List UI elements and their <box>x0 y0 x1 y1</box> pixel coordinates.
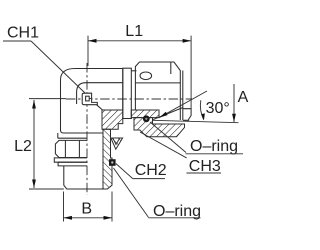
captive seal square <box>109 159 116 166</box>
svg-text:30°: 30° <box>206 100 230 117</box>
retaining ring middle arm <box>89 97 91 99</box>
threaded stud <box>64 166 108 189</box>
elbow body inner hex-face line <box>77 83 123 104</box>
svg-text:CH3: CH3 <box>189 158 221 175</box>
section hatch: body lower wall <box>102 110 123 129</box>
bore cone edge to section <box>97 105 103 110</box>
seat cone line <box>153 108 184 120</box>
nut facet line <box>135 82 180 84</box>
svg-text:L2: L2 <box>14 138 32 155</box>
retaining ring inner notch <box>86 96 90 101</box>
nut ellipse mark <box>140 72 152 80</box>
elbow body bottom edge <box>67 132 104 134</box>
section hatch: nut lower body <box>134 118 185 137</box>
collar flange <box>123 68 132 118</box>
30 degree leader <box>159 91 230 120</box>
retaining ring detail (CH1 target) <box>82 93 97 105</box>
section hatch: band under nut left <box>131 110 159 118</box>
tube segment in gap <box>131 70 136 72</box>
washer 1 <box>54 158 87 162</box>
locknut CH2 external <box>55 140 87 157</box>
nut face second line <box>182 71 184 121</box>
svg-text:B: B <box>81 201 92 218</box>
nut chamfer facet edge <box>170 62 172 74</box>
svg-text:L1: L1 <box>125 23 143 40</box>
washer 2 (bonded seal) <box>58 162 87 166</box>
port nose stub <box>183 109 191 121</box>
body boss below <box>58 133 87 138</box>
swivel nut outline <box>135 62 180 120</box>
svg-text:CH2: CH2 <box>135 162 167 179</box>
label O-ring lower with leader <box>114 168 202 220</box>
svg-text:A: A <box>238 89 249 106</box>
elbow body outer outline <box>61 69 123 134</box>
horizontal centerline <box>29 98 192 100</box>
dim L1 <box>88 23 191 109</box>
seat base line to right <box>153 120 239 122</box>
section hatch: vertical port wall <box>103 129 112 189</box>
O-ring dot (port seal) <box>143 115 150 122</box>
dim B <box>64 192 113 222</box>
dim A <box>232 84 249 122</box>
vertical centerline <box>86 63 88 195</box>
dim L2 <box>14 100 64 189</box>
locknut section wedge <box>111 138 123 149</box>
locknut facet lines <box>65 140 79 157</box>
elbow body right edge <box>122 69 124 111</box>
label CH1 with leader <box>3 25 85 93</box>
locknut section wedge inner line <box>113 138 120 145</box>
label CH2 with leader <box>116 162 167 179</box>
label CH3 with leader <box>140 132 221 175</box>
svg-text:CH1: CH1 <box>7 25 39 42</box>
svg-text:O–ring: O–ring <box>190 138 238 155</box>
label O-ring upper with leader <box>150 122 243 155</box>
